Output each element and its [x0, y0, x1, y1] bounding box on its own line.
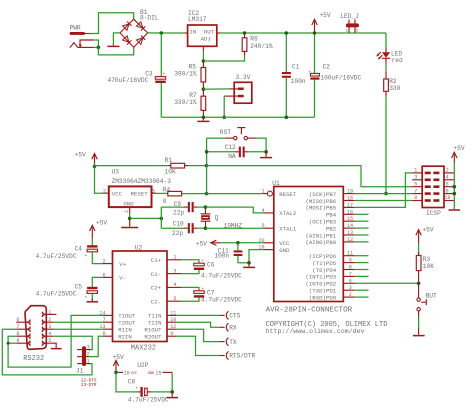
junction ADJ node [202, 59, 206, 63]
pin U1 10 GND [258, 245, 290, 254]
pin U1 6 (INT0)PD2 [305, 278, 354, 287]
svg-text:C2: C2 [323, 63, 331, 70]
svg-text:C8: C8 [128, 379, 136, 386]
pin U2P 16 VCC [116, 370, 137, 376]
pin U1 13 (AIN1)PB1 [305, 230, 368, 239]
pin ICSP 9 [412, 195, 422, 201]
regulator IC2 labels [188, 10, 207, 23]
wire ICSP right rail [453, 163, 455, 209]
pin U2 14 T1OUT [99, 310, 135, 319]
svg-text:16: 16 [124, 370, 130, 376]
capacitor C10 [161, 223, 205, 233]
wire LED to R2 [385, 64, 387, 72]
svg-text:C10: C10 [173, 221, 184, 228]
pin U1 8 (T0)PD4 [312, 265, 368, 274]
wire reset to U1 pin1 [207, 193, 267, 195]
pin U1 3 (TXD)PD1 [309, 285, 369, 294]
capacitor C11 labels [214, 247, 229, 259]
capacitor C2 polarized [309, 33, 320, 117]
svg-text:R2OUT: R2OUT [144, 334, 162, 341]
junction R1 right node [205, 164, 209, 168]
jumper LED_J label [340, 13, 359, 20]
svg-text:R1OUT: R1OUT [144, 327, 162, 334]
svg-text:NA: NA [228, 153, 236, 160]
pin ICSP 7 [412, 188, 422, 194]
connector PWR pad [70, 32, 90, 35]
label RS232 [23, 355, 44, 363]
diode D2 top-to-right [137, 22, 143, 28]
svg-text:470uF/16VDC: 470uF/16VDC [108, 77, 149, 84]
svg-text:ZM33064ZM33064-3: ZM33064ZM33064-3 [112, 178, 172, 185]
junction ICSP pin6 [453, 185, 457, 189]
crystal circuit: wire gnd tap [130, 217, 162, 219]
pin U2 6 V- [103, 272, 127, 281]
junction DB9 pin9 [7, 342, 10, 345]
supply +5V arrow at ICSP [452, 145, 465, 163]
LED red symbol [376, 48, 390, 64]
junction bridge output node [160, 31, 164, 35]
header ICSP box [422, 166, 444, 207]
pin U2 3 C1- [151, 268, 182, 278]
svg-text:C2-: C2- [151, 299, 161, 306]
wire +5V down to U3 VCC [95, 167, 109, 194]
wire reset net vertical [206, 138, 208, 194]
pin U1 18 (MISO)PB6 [305, 196, 354, 205]
pin U3 pin2 number [103, 189, 106, 195]
capacitor C7 labels [201, 289, 242, 303]
ground at bridge [107, 44, 119, 46]
wire 3.3V bottom pad to rail [224, 96, 238, 117]
resistor R5 [201, 61, 206, 89]
svg-text:BUT: BUT [426, 293, 437, 300]
pin ICSP 5 [412, 181, 422, 187]
MCU U1 box AVR-28PIN-CONNECTOR [274, 187, 344, 302]
svg-text:5: 5 [262, 223, 265, 229]
junction 3.3V rail [222, 116, 226, 120]
wire RST left [207, 137, 225, 139]
wire bridge minus to ground [113, 33, 120, 44]
junction R5 bottom [202, 87, 206, 91]
ground at DB9 pin5 [51, 348, 62, 350]
pin U1 16 PB4 [326, 209, 369, 218]
svg-text:RESET: RESET [131, 190, 149, 197]
capacitor C6 labels [201, 262, 242, 280]
svg-text:MAX232: MAX232 [131, 344, 156, 352]
pin U2P 15 GND [148, 370, 173, 376]
svg-text:R7: R7 [189, 92, 197, 99]
svg-text:10K: 10K [165, 169, 176, 176]
pin U2 9 R2OUT [144, 331, 176, 340]
crystal Q [201, 207, 211, 228]
junction R4 right / reset net [205, 192, 209, 196]
svg-text:+: + [135, 386, 138, 391]
wire C1+ to C6 [182, 260, 199, 263]
svg-text:2: 2 [103, 189, 106, 195]
port RX symbol [226, 323, 237, 331]
port RTS/DTR symbol [226, 352, 255, 360]
pin U2 4 C2+ [151, 282, 182, 292]
resistor R6 labels [250, 36, 273, 51]
svg-text:C7: C7 [207, 289, 215, 296]
junction Q top [204, 205, 208, 209]
resistor R7 [201, 89, 206, 117]
capacitor C4 labels [36, 245, 83, 259]
svg-text:+5V: +5V [96, 220, 107, 227]
wire C9 C10 left vertical [160, 207, 162, 228]
capacitor C6 polarized [194, 259, 205, 270]
ground at rail [197, 117, 209, 121]
pin DB9 8 wire to T1OUT [8, 315, 103, 367]
label ICSP [426, 210, 441, 217]
pin U3 pin3 [152, 188, 168, 194]
pin U1 2 (RXD)PD0 [309, 292, 369, 301]
wire C7 to C2- [182, 298, 199, 302]
svg-text:22p: 22p [172, 230, 183, 237]
pin U1 1 RESET bubble [262, 188, 297, 198]
svg-text:J1: J1 [76, 367, 84, 374]
wire R2 to SCK row [385, 97, 387, 194]
resistor R5 labels [174, 64, 197, 78]
wire reset to ICSP pin5 [207, 166, 413, 187]
jumper 3.3V label [236, 74, 251, 81]
svg-text:+5V: +5V [113, 354, 124, 361]
ground below U1 [243, 263, 255, 268]
pin DB9 7 wire to J1 pin1 [2, 324, 92, 375]
wire MISO row to ICSP pin9 [355, 200, 412, 202]
svg-text:GND: GND [279, 247, 290, 254]
pin DB9 9 stub [8, 338, 27, 344]
resistor R1 [95, 163, 207, 168]
pin U3 pin1 gnd [124, 207, 130, 218]
capacitor C12 labels [225, 144, 236, 160]
pin DB9 4 wire to J1 pin3 [46, 331, 93, 349]
pin U1 15 (OCI)PB3 [309, 216, 369, 225]
svg-text:15: 15 [155, 370, 161, 376]
wire bridge plus to IC2 [148, 32, 188, 34]
pin DB9 5 to ground [46, 338, 57, 348]
connector RS232 DB9 outline [25, 306, 46, 350]
LED arrows [377, 52, 381, 56]
label MAX232 [131, 344, 156, 352]
pin ICSP 6 [444, 181, 454, 187]
pin DB9 6 [16, 317, 27, 323]
svg-text:390/1%: 390/1% [174, 71, 197, 78]
pin DB9 1 [46, 309, 57, 315]
wire U1 GND to ground [238, 250, 263, 263]
port CTS symbol [226, 311, 240, 319]
wire C4 to V+ [92, 252, 103, 264]
supervisor U3 box [109, 186, 152, 207]
wire +5V to C8 [116, 372, 137, 392]
resistor R2 labels [389, 78, 400, 92]
pin U2 12 R1OUT [144, 324, 176, 333]
svg-text:RX: RX [229, 325, 237, 332]
ground below C12 [260, 152, 272, 158]
MCU U1 label [272, 180, 280, 187]
connector PWR label [70, 25, 81, 32]
pin U1 11 (ICP)PD6 [309, 251, 369, 260]
wire BUT to ground [418, 317, 420, 335]
pin IC2 ADJ [202, 46, 204, 61]
junction Q bottom [204, 226, 208, 230]
junction C11 top [236, 241, 240, 245]
wire IC2 out to rail [217, 32, 386, 34]
pin U2 5 C2- [151, 296, 182, 306]
svg-text:240/1%: 240/1% [250, 43, 273, 50]
svg-text:XTAL2: XTAL2 [279, 210, 297, 217]
capacitor C4 polarized [85, 238, 98, 259]
svg-text:http://www.olimex.com/dev: http://www.olimex.com/dev [266, 328, 365, 335]
svg-text:8-DIL: 8-DIL [140, 15, 159, 22]
svg-text:100n: 100n [214, 252, 229, 259]
svg-text:(AIN0)PB0: (AIN0)PB0 [305, 239, 336, 246]
svg-text:R3: R3 [423, 256, 431, 263]
label J1 options [81, 378, 97, 387]
wire +5V to VCC [221, 242, 263, 244]
supply +5V arrow at C4 [90, 220, 108, 238]
jumper 3.3V box [234, 82, 252, 103]
ground below U3 [121, 218, 138, 227]
wire SCK row to ICSP pin7 [355, 193, 412, 195]
pin U1 19 (SCK)PB7 [309, 189, 355, 198]
capacitor C8 labels [128, 379, 169, 404]
pin U1 17 (MOSI)PB5 [305, 202, 354, 211]
capacitor C3 polarized [155, 72, 165, 83]
junction U3 gnd [128, 217, 132, 221]
ground below BUT [413, 335, 425, 337]
svg-text:23-DTR: 23-DTR [81, 383, 97, 388]
wire jack to bridge bottom [98, 47, 133, 55]
pin U2 10 T2IN [148, 317, 177, 326]
supply +5V arrow at U2P [113, 354, 124, 372]
jumper J1 label [76, 367, 84, 374]
label copyright [266, 321, 388, 329]
label url [266, 328, 365, 335]
pin U2 7 T2OUT [103, 317, 136, 326]
wire jack to junction [94, 40, 99, 47]
svg-text:GND: GND [148, 372, 154, 376]
pin J1 3 [77, 345, 90, 351]
svg-text:4.7uF/25VDC: 4.7uF/25VDC [201, 296, 242, 303]
resistor R2 [384, 72, 389, 97]
pin ICSP 2 [444, 168, 454, 174]
bridge rectifier B1 labels [140, 9, 159, 22]
connector RS232 contacts left column [27, 320, 31, 346]
pin U2 8 R2IN [103, 331, 132, 340]
junction crystal gnd [160, 217, 164, 221]
svg-text:R2IN: R2IN [118, 334, 132, 341]
wire C6 to C1- [182, 270, 199, 274]
driver U2 label [135, 245, 143, 252]
wire rail to LED chain [385, 33, 387, 48]
svg-text:+5V: +5V [422, 227, 433, 234]
svg-text:CTS: CTS [229, 313, 240, 320]
pin U2 2 V+ [103, 259, 127, 268]
power jack body [78, 40, 94, 47]
wire RST right [256, 138, 266, 152]
svg-text:R5: R5 [189, 64, 197, 71]
svg-text:AVR-28PIN-CONNECTOR: AVR-28PIN-CONNECTOR [266, 306, 353, 314]
supply +5V arrow at U3 [75, 152, 98, 167]
wire C2+ to C7 [182, 287, 199, 290]
junction C1 top [285, 31, 289, 35]
port TX wire [176, 329, 224, 341]
pin ICSP 10 [444, 195, 454, 201]
svg-text:330/1%: 330/1% [174, 99, 197, 106]
resistor R1 labels [165, 157, 176, 176]
svg-text:+5V: +5V [75, 152, 86, 159]
capacitor C3 labels [108, 70, 153, 84]
diode D1 left-to-top [123, 24, 129, 30]
svg-text:T2IN: T2IN [148, 320, 162, 327]
junction ICSP pin8 [453, 192, 457, 196]
wire R6 to ADJ [203, 55, 244, 61]
pin U2 13 R1IN [99, 324, 131, 333]
capacitor C10 labels [172, 221, 184, 237]
diode D3 left-to-bottom [123, 36, 129, 43]
svg-text:U3: U3 [112, 169, 120, 176]
svg-text:PWR: PWR [70, 25, 81, 32]
svg-text:3: 3 [87, 345, 90, 351]
pin U1 7 (INT1)PD3 [305, 271, 368, 280]
supply +5V arrow at U1 VCC [196, 240, 221, 247]
wire V- to C5 [92, 277, 103, 286]
svg-text:+: + [85, 254, 88, 259]
svg-text:1: 1 [87, 359, 90, 365]
ground below C5 [87, 299, 99, 302]
pin DB9 3 wire to R1IN [46, 324, 103, 330]
svg-text:1: 1 [262, 188, 265, 194]
svg-text:4.7uF/25VDC: 4.7uF/25VDC [36, 290, 77, 297]
svg-text:XTAL1: XTAL1 [279, 226, 297, 233]
capacitor C8 polarized [135, 386, 172, 396]
ground below ICSP [449, 208, 461, 210]
svg-text:C1: C1 [292, 64, 300, 71]
svg-text:4: 4 [262, 208, 265, 214]
capacitor C1 [282, 33, 291, 117]
port CTS wire [176, 314, 224, 316]
wire PWR to top rail [90, 13, 134, 34]
junction C12 right [264, 150, 268, 154]
pin ICSP 4 [444, 175, 454, 181]
svg-text:C2+: C2+ [151, 285, 162, 292]
svg-text:3.3V: 3.3V [236, 74, 251, 81]
wire INT0 row to R3 [355, 282, 419, 284]
jumper J1 bar [82, 346, 86, 366]
ground below C8 [166, 392, 178, 398]
button BUT label [426, 293, 437, 300]
svg-text:VCC: VCC [131, 372, 137, 376]
svg-text:330: 330 [389, 85, 400, 92]
pin U1 5 XTAL1 [262, 223, 297, 232]
capacitor C9 labels [173, 201, 184, 216]
junction U2P left [114, 371, 118, 375]
svg-text:C1+: C1+ [151, 257, 162, 264]
port RX wire [176, 322, 224, 327]
svg-text:100uF/16VDC: 100uF/16VDC [320, 75, 361, 82]
pin J1 1 [77, 359, 90, 365]
svg-text:+5V: +5V [453, 145, 464, 152]
svg-text:+5V: +5V [196, 240, 207, 247]
label AVR-28PIN-CONNECTOR [266, 306, 353, 314]
svg-text:RESET: RESET [279, 191, 297, 198]
capacitor C5 polarized [85, 287, 98, 301]
LED labels [391, 51, 403, 64]
junction U1 gnd node [247, 261, 251, 265]
button RST switch [225, 128, 257, 140]
pin U1 9 (T1)PD5 [312, 258, 368, 267]
svg-text:+: + [85, 296, 88, 301]
capacitor C11 [234, 243, 243, 263]
svg-text:RST: RST [220, 129, 231, 136]
pin ICSP 8 [444, 188, 454, 194]
supply +5V arrow top rail [312, 12, 331, 33]
svg-text:1: 1 [346, 30, 348, 34]
svg-text:RTS/DTR: RTS/DTR [229, 353, 255, 360]
capacitor C12 [207, 147, 267, 158]
pin U1 20 VCC [258, 238, 290, 247]
svg-text:C1-: C1- [151, 271, 161, 278]
svg-text:(RXD)PD0: (RXD)PD0 [309, 294, 337, 301]
svg-text:R6: R6 [250, 36, 258, 43]
wire gnd rail top section [161, 116, 314, 118]
power jack J zigzag contact [70, 43, 78, 48]
svg-text:ICSP: ICSP [426, 210, 441, 217]
junction R3 bottom [417, 282, 421, 286]
pin U2 1 C1+ [151, 255, 182, 265]
wire MOSI row to ICSP pin1 [355, 173, 412, 208]
svg-text:U2P: U2P [137, 362, 148, 369]
driver U2 MAX232 box [113, 251, 168, 342]
pin U1 12 (AIN0)PB0 [305, 237, 368, 246]
svg-text:V-: V- [119, 275, 126, 282]
button BUT switch [417, 283, 426, 317]
resistor R4 labels [163, 186, 171, 204]
junction R2 SCK [384, 192, 388, 196]
svg-text:C5: C5 [75, 283, 83, 290]
svg-text:+5V: +5V [319, 12, 330, 19]
capacitor C3 wires [160, 33, 162, 117]
svg-text:+1: +1 [124, 210, 128, 214]
svg-text:ADJ: ADJ [201, 35, 211, 42]
svg-text:IN: IN [189, 29, 196, 36]
svg-text:Q: Q [215, 214, 219, 221]
crystal Q labels [215, 214, 243, 229]
regulator IC2 LM317 box [188, 25, 217, 46]
svg-text:100n: 100n [291, 78, 306, 85]
wire XTAL1 net [206, 227, 274, 229]
svg-text:4.7uF/25VDC: 4.7uF/25VDC [36, 253, 77, 260]
svg-text:T2OUT: T2OUT [118, 320, 136, 327]
svg-text:LED_J: LED_J [340, 13, 359, 20]
pin U1 14 PB2 [326, 223, 369, 232]
diode D4 bottom-to-right [137, 38, 143, 45]
connector RS232 contacts right column [42, 312, 46, 346]
svg-text:0: 0 [163, 198, 167, 205]
svg-text:10K: 10K [423, 263, 434, 270]
svg-text:4.7uF/25VDC: 4.7uF/25VDC [128, 396, 169, 403]
svg-text:LM317: LM317 [188, 16, 207, 23]
junction R7 rail [202, 116, 206, 120]
port RTS/DTR wire [176, 336, 224, 355]
wire XTAL2 net [206, 207, 274, 213]
wire 3.3V top pad to R5 node [203, 88, 237, 90]
junction C1 bottom [285, 116, 289, 120]
svg-text:C12: C12 [225, 144, 236, 151]
capacitor C5 labels [36, 283, 83, 297]
junction +5V U3 node [93, 165, 97, 169]
svg-text:R1IN: R1IN [118, 327, 132, 334]
